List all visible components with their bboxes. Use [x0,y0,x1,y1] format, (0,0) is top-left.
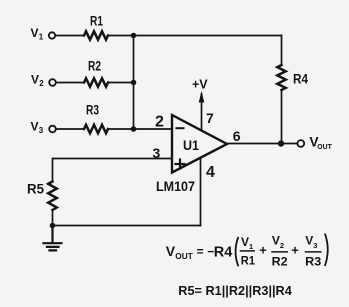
svg-text:OUT: OUT [175,252,193,261]
svg-text:V: V [272,234,280,248]
svg-text:3: 3 [313,241,317,250]
svg-text:4: 4 [206,164,215,181]
junction dot ground node [50,223,56,229]
wire pin 4 down to bottom rail [200,158,202,226]
svg-text:LM107: LM107 [156,179,195,194]
svg-text:V: V [31,120,39,134]
wire output pin 6 to VOUT terminal [227,143,297,145]
resistor R2 [84,78,108,86]
svg-text:R1: R1 [241,253,255,267]
svg-text:V: V [31,73,39,87]
equation big right paren [325,234,328,267]
svg-text:R2: R2 [272,254,288,268]
svg-text:R4: R4 [293,72,308,87]
junction dot row2 / bus [131,80,137,86]
wire V2 terminal to R2 [56,82,84,84]
node VOUT output terminal [297,140,304,147]
svg-text:+: + [291,243,299,258]
wire R4 bottom to output node [281,90,283,144]
svg-text:=: = [197,245,204,259]
wire pin 7 supply lead [201,94,203,131]
wire bottom rail ground node to pin 4 [53,225,201,227]
svg-text:V: V [241,235,249,249]
wire V1 terminal to R1 [55,35,84,37]
svg-text:R5: R5 [27,182,44,197]
junction dot row3 / bus [131,126,137,132]
svg-text:U1: U1 [183,137,199,153]
wire V3 terminal to R3 [56,128,84,130]
svg-text:+V: +V [192,78,208,92]
svg-text:R2: R2 [88,59,101,74]
svg-text:2: 2 [155,114,164,131]
wire R4 column top [281,36,283,66]
svg-text:3: 3 [39,126,44,135]
junction dot row1 / bus [131,33,137,39]
node V2 input terminal [49,79,56,86]
wire R2 to bus [108,82,134,84]
svg-text:V: V [31,26,39,40]
node V3 input terminal [49,126,56,133]
svg-text:1: 1 [39,33,44,42]
svg-text:7: 7 [206,110,214,126]
svg-text:2: 2 [39,79,44,88]
node V1 input terminal [49,32,55,38]
svg-text:R5= R1||R2||R3||R4: R5= R1||R2||R3||R4 [178,284,292,298]
wire pin 3 (non-inverting input) to R5 top corner [53,159,173,182]
wire R1 to top-right corner (summing bus and R4 column) [108,35,282,37]
arrowhead +V supply [199,91,205,103]
svg-text:1: 1 [249,242,253,251]
svg-text:R3: R3 [86,103,99,118]
svg-text:R4: R4 [214,245,233,261]
plus sign at non-inverting input [176,160,185,169]
svg-text:OUT: OUT [317,142,332,151]
svg-text:3: 3 [153,145,161,161]
minus sign at inverting input [177,127,184,129]
svg-text:2: 2 [280,241,284,250]
junction dot output node to R4 [278,140,284,146]
svg-text:6: 6 [233,128,241,144]
resistor R3 [84,125,108,133]
equation big left paren [236,237,239,266]
svg-text:R1: R1 [90,14,103,29]
resistor R4 [277,65,285,90]
ground symbol [44,226,62,251]
wire R5 bottom to ground node [52,210,54,226]
wire R3 to op-amp pin 2 (inverting input) [108,128,172,130]
svg-text:V: V [166,243,176,259]
op-amp U1 triangle [172,115,227,173]
resistor R1 [84,31,108,39]
svg-text:+: + [259,243,267,258]
wire summing bus vertical [133,36,135,130]
svg-text:R3: R3 [305,254,321,268]
resistor R5 [48,182,57,211]
svg-text:V: V [305,234,313,248]
